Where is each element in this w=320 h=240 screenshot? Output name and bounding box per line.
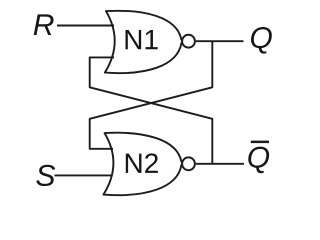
NOR gate N1 output bubble (182, 35, 195, 48)
label R (34, 14, 54, 35)
wire S input (55, 174, 113, 176)
overbar of Qbar (251, 141, 269, 144)
NOR gate N2 output bubble (182, 157, 195, 170)
wire feedback Q to N2 input (90, 41, 213, 149)
label N1 (126, 30, 158, 49)
NOR gate N1 body (105, 11, 183, 73)
wire Q output (196, 40, 244, 42)
NOR gate N2 body (103, 133, 182, 195)
label Qbar (248, 147, 269, 174)
label S (36, 165, 55, 186)
label N2 (126, 153, 158, 173)
wire R input (57, 25, 114, 27)
wire Qbar output (196, 163, 244, 165)
label Q (251, 27, 272, 54)
wire feedback Qbar to N1 input (90, 57, 213, 163)
